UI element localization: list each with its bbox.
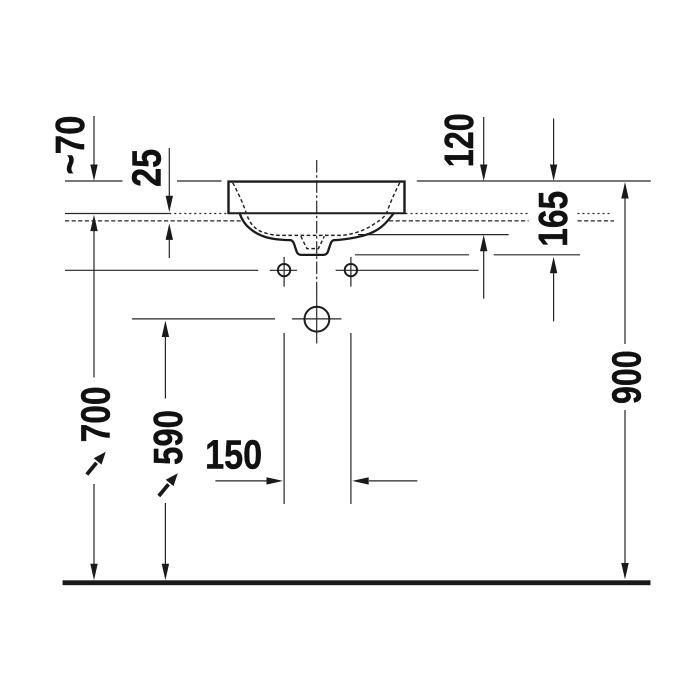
- svg-text:25: 25: [124, 149, 170, 187]
- svg-text:120: 120: [436, 113, 482, 167]
- svg-text:700: 700: [73, 386, 119, 442]
- svg-text:165: 165: [530, 191, 576, 247]
- svg-text:590: 590: [145, 410, 191, 465]
- svg-text:~70: ~70: [47, 116, 93, 175]
- svg-text:150: 150: [205, 432, 262, 478]
- svg-text:900: 900: [603, 350, 649, 404]
